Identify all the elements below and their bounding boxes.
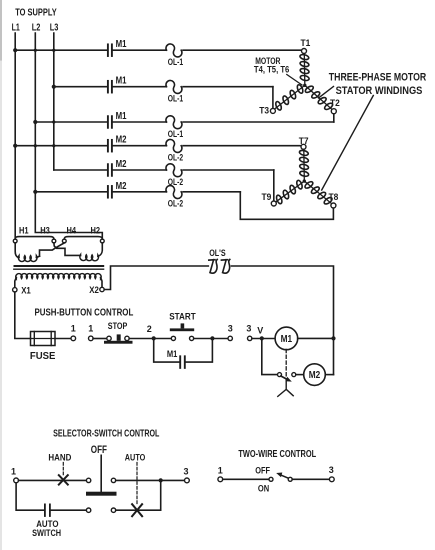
overload contact OL'S (209, 259, 217, 273)
node line4-L2 crossing (34, 144, 37, 147)
svg-text:OFF: OFF (255, 466, 270, 477)
contact M2 line5 (107, 164, 109, 176)
svg-text:2: 2 (147, 324, 152, 334)
node L1-line1 (13, 48, 17, 52)
winding coil T1-center (299, 54, 309, 85)
wire L2 vertical (35, 33, 102, 239)
node L3-line2 (52, 85, 56, 89)
svg-text:T8: T8 (329, 192, 339, 203)
svg-text:ON: ON (258, 483, 269, 494)
switch pivot twowire (288, 477, 292, 481)
overload heater OL-1 line1 (166, 44, 182, 57)
overload heater OL-1 line3 (166, 116, 182, 129)
svg-text:T4, T5, T6: T4, T5, T6 (254, 65, 289, 76)
pointer to winding A (319, 87, 334, 99)
svg-text:1: 1 (218, 466, 223, 476)
node winding A center (303, 84, 306, 87)
coil M2 (304, 364, 326, 386)
svg-text:OL-1: OL-1 (168, 57, 183, 67)
svg-text:OL'S: OL'S (209, 248, 226, 258)
svg-text:START: START (169, 312, 196, 323)
terminal T1 (302, 49, 307, 54)
contact M2 interlock right (292, 373, 296, 377)
wire contact to M2 coil (296, 374, 304, 376)
wire line3 riser to T2 (333, 114, 335, 122)
svg-text:3: 3 (183, 466, 188, 476)
wire line3 right segment (183, 121, 334, 123)
svg-text:3: 3 (228, 324, 233, 334)
contact circle selector d (111, 508, 115, 512)
scan edge line (0, 0, 2, 550)
wire M1 coil to rail (298, 337, 334, 339)
svg-text:M1: M1 (116, 39, 127, 50)
svg-text:SWITCH: SWITCH (32, 528, 61, 539)
contact M1 line1 (107, 44, 109, 56)
contact X HAND (59, 475, 68, 484)
overload heater OL-2 line4 (166, 139, 182, 152)
wire line6 left segment (35, 191, 107, 193)
svg-text:M1: M1 (116, 76, 127, 87)
svg-text:L2: L2 (32, 22, 41, 33)
wire line5 left segment (54, 169, 107, 171)
svg-text:PUSH-BUTTON CONTROL: PUSH-BUTTON CONTROL (35, 307, 134, 319)
wire twowire left (223, 478, 269, 480)
terminal T9 (271, 201, 276, 206)
wire line6 right segment (183, 191, 240, 193)
node L2-line3 (33, 120, 37, 124)
svg-text:1: 1 (11, 466, 16, 476)
contact M1 line3 (107, 116, 109, 128)
contact M2 interlock blade (281, 376, 288, 380)
contact M2 interlock left (278, 373, 282, 377)
svg-text:T2: T2 (330, 98, 340, 109)
wire selector top right (116, 479, 185, 481)
overload heater OL-2 line5 (166, 164, 182, 177)
svg-text:M2: M2 (309, 370, 321, 381)
svg-text:V: V (257, 325, 263, 335)
wire line1 right segment (183, 49, 302, 51)
wire line3 left segment (35, 121, 107, 123)
winding coil T2-center (302, 82, 335, 113)
contact M1 aux (179, 356, 181, 368)
node line3-L3 crossing (52, 120, 55, 123)
wire line5 mid segment (113, 169, 166, 171)
svg-text:STATOR WINDINGS: STATOR WINDINGS (336, 85, 423, 97)
fuse F1 (31, 332, 56, 346)
svg-text:H3: H3 (40, 226, 50, 237)
svg-text:1: 1 (88, 323, 93, 333)
svg-text:AUTO: AUTO (125, 453, 146, 464)
svg-text:H4: H4 (67, 226, 77, 237)
terminal 3 a (228, 336, 232, 340)
svg-text:THREE-PHASE MOTOR: THREE-PHASE MOTOR (329, 71, 426, 83)
wire terminal3 to M1 coil (252, 338, 275, 340)
svg-text:X2: X2 (89, 285, 99, 296)
pointer to winding B (322, 96, 374, 191)
wire fuse to terminal 1 (55, 338, 71, 340)
transformer T1 primary coil left (15, 243, 19, 258)
wire line4 mid segment (113, 145, 166, 147)
wire selector bottom right (116, 509, 161, 511)
transformer T1 primary coil right (80, 255, 99, 261)
wire terminal1 to stop (93, 338, 107, 340)
winding coil center-T9 (273, 177, 307, 206)
node L2-line6 (33, 190, 37, 194)
wire line2 drop to T3 (272, 87, 274, 109)
wire L3 vertical (53, 33, 55, 170)
node line1-L3 crossing (52, 49, 55, 52)
wire line6 mid segment (113, 191, 166, 193)
svg-text:FUSE: FUSE (30, 351, 56, 362)
terminal H1 (13, 239, 17, 243)
wire twowire right (292, 478, 329, 480)
coil M1 (275, 327, 298, 350)
wire line2 mid segment (113, 86, 166, 88)
svg-text:TO SUPPLY: TO SUPPLY (15, 7, 57, 18)
wire selector left drop (16, 483, 44, 510)
contact M1 line2 (107, 81, 109, 93)
wire X2 to top rail (104, 266, 208, 290)
svg-text:HAND: HAND (48, 453, 71, 464)
terminal H4 (62, 239, 66, 243)
contact circle selector b (111, 478, 115, 482)
wire selector top left (19, 479, 87, 481)
mechanical link M1 dashed (285, 349, 287, 377)
node V (260, 336, 264, 340)
svg-text:OL-1: OL-1 (168, 129, 183, 139)
svg-text:H2: H2 (91, 226, 101, 237)
svg-text:OL-2: OL-2 (168, 199, 183, 209)
wire line1 mid segment (113, 49, 166, 51)
svg-text:OL-1: OL-1 (168, 94, 183, 104)
terminal T8 (331, 203, 336, 208)
terminal T3 (270, 108, 275, 113)
svg-text:T7: T7 (299, 136, 309, 147)
wire line6 route to T8 (240, 192, 333, 220)
pushbutton START (171, 336, 175, 340)
terminal 3 selector (185, 478, 190, 483)
wire line5 drop to T9 (273, 170, 275, 201)
terminal 3 twowire (329, 477, 334, 482)
svg-text:L1: L1 (12, 22, 21, 33)
contact X AUTO (132, 504, 142, 516)
node 2 (152, 336, 156, 340)
node L1-line4 (13, 144, 17, 148)
contact circle selector a (86, 478, 90, 482)
transformer T1 primary arch H4-H2 (64, 237, 102, 240)
terminal 1 selector (14, 478, 19, 483)
selector OFF handle (100, 455, 102, 491)
selector HAND dashed (62, 463, 64, 476)
terminal H2 (100, 239, 104, 243)
wire line3 mid segment (113, 121, 166, 123)
wire X1 down to fuse (15, 292, 31, 339)
svg-text:T1: T1 (301, 38, 311, 49)
svg-text:M2: M2 (116, 135, 127, 146)
overload heater OL-2 line6 (166, 186, 182, 199)
svg-text:3: 3 (329, 465, 334, 475)
contact M2 line4 (107, 140, 109, 152)
wire H3 to right primary coil (54, 243, 81, 256)
transformer T1 secondary coil (15, 277, 16, 287)
svg-text:M1: M1 (167, 349, 178, 360)
transformer T1 primary arch H1-H3 (15, 237, 54, 240)
wire line1 left segment (15, 49, 107, 51)
wire auto switch to circle (51, 509, 87, 511)
node line1-L2 crossing (34, 49, 37, 52)
svg-text:H1: H1 (19, 226, 29, 237)
wire start to terminal 3 (194, 338, 228, 340)
contact circle selector c (86, 508, 90, 512)
wire M2 coil to rail (325, 374, 333, 376)
wire line2 right segment (183, 86, 273, 88)
transformer T1 core (15, 265, 104, 267)
terminal 1 a (71, 336, 76, 341)
wire line5 right segment (183, 169, 274, 171)
pointer motor label (287, 75, 302, 86)
node right rail M1 line (331, 336, 335, 340)
terminal X2 (100, 287, 104, 291)
terminal T7 (301, 144, 306, 149)
wire selector right riser (160, 480, 162, 510)
wire line2 left segment (54, 86, 107, 88)
svg-text:T3: T3 (259, 106, 269, 117)
node selector right (159, 478, 163, 482)
contact M2 line6 (107, 186, 109, 198)
svg-text:STOP: STOP (108, 321, 128, 332)
terminal H3 (52, 239, 56, 243)
wire stop to node2 (129, 338, 171, 340)
wire line4 right segment (183, 145, 301, 147)
winding coil T7-center (299, 149, 309, 180)
winding coil T8-center (301, 177, 334, 207)
svg-text:TWO-WIRE CONTROL: TWO-WIRE CONTROL (238, 448, 316, 460)
wire L1 vertical (14, 33, 16, 239)
svg-text:OL-2: OL-2 (168, 153, 183, 163)
wire M1 branch (154, 338, 213, 362)
contact AUTO SWITCH (44, 504, 46, 516)
switch blade twowire (282, 475, 289, 478)
terminal X1 (13, 288, 17, 292)
pushbutton STOP (107, 336, 111, 340)
svg-text:T9: T9 (262, 192, 272, 203)
wire line4 left segment (15, 145, 107, 147)
node 3 junction (210, 336, 214, 340)
wire V down to M2 contact (262, 338, 278, 374)
terminal 1 twowire (218, 477, 223, 482)
svg-text:X1: X1 (21, 286, 31, 297)
terminal T2 (331, 109, 336, 114)
node winding B center (303, 179, 306, 182)
svg-text:1: 1 (71, 323, 76, 333)
svg-text:M1: M1 (116, 111, 127, 122)
terminal 1 b (89, 336, 94, 341)
node line4-L3 crossing (52, 144, 55, 147)
wire top rail right (232, 266, 334, 375)
svg-text:L3: L3 (50, 22, 59, 33)
svg-text:M1: M1 (281, 334, 293, 345)
svg-text:SELECTOR-SWITCH CONTROL: SELECTOR-SWITCH CONTROL (53, 427, 160, 439)
winding coil center-T3 (272, 81, 307, 112)
selector AUTO dashed (136, 463, 138, 505)
mechanical interlock crowfoot (278, 380, 293, 397)
wire H4 to left primary coil (40, 243, 65, 256)
svg-text:M2: M2 (116, 159, 127, 170)
terminal 3 b (248, 336, 252, 340)
svg-text:3: 3 (246, 324, 251, 334)
contact twowire fixed (269, 477, 273, 481)
svg-text:OFF: OFF (91, 444, 107, 456)
overload heater OL-1 line2 (166, 80, 182, 93)
svg-text:M2: M2 (116, 181, 127, 192)
